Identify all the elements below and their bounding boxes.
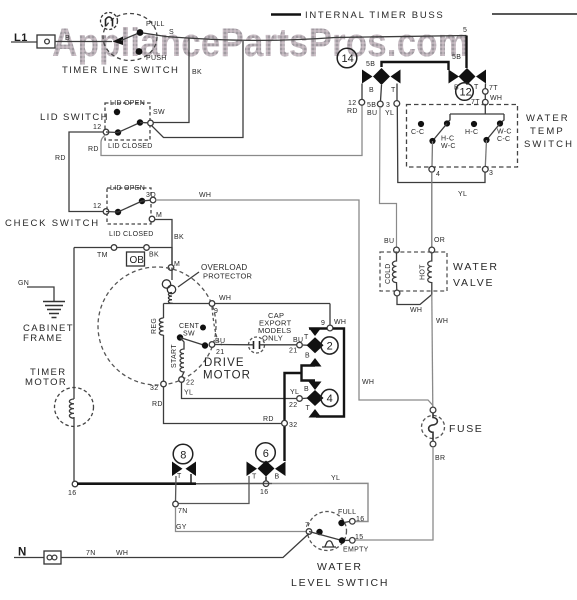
wire BU 21 to capacitor to 2 <box>215 344 297 346</box>
svg-text:B: B <box>65 35 70 42</box>
timer contact diamond 12 <box>459 68 476 85</box>
wire RD lid12 to timer12 <box>101 105 362 156</box>
svg-text:6: 6 <box>263 448 269 460</box>
blade to SW <box>140 122 148 124</box>
fuse dashed circle <box>422 416 445 439</box>
overload leader line <box>178 272 199 287</box>
lid switch blade end dot <box>137 119 143 125</box>
N terminal box <box>44 551 61 564</box>
svg-text:RD: RD <box>263 416 274 423</box>
svg-text:5B: 5B <box>452 54 461 61</box>
svg-text:12: 12 <box>348 100 356 107</box>
wire N to water level 7 <box>14 534 309 558</box>
L1 terminal box <box>37 35 55 48</box>
svg-text:M: M <box>174 261 180 268</box>
buss triangle 4T (up) <box>309 409 322 418</box>
wire WH valve to fuse <box>432 295 433 408</box>
svg-text:3: 3 <box>489 170 493 177</box>
circled 6 <box>256 443 276 463</box>
overload coil <box>168 293 172 304</box>
svg-text:W-C: W-C <box>497 129 512 136</box>
temp terminal 3 <box>482 166 488 172</box>
svg-text:8: 8 <box>180 449 186 461</box>
water level blade to empty <box>309 532 342 541</box>
svg-text:N: N <box>18 547 26 559</box>
full contact stub <box>344 522 350 523</box>
svg-text:WH: WH <box>362 379 374 386</box>
wire motor top to timer 9 <box>329 304 331 326</box>
wire 7N link 8T to 6T <box>176 476 250 504</box>
buss triangle 2B (up) <box>309 358 322 367</box>
full contact dot <box>338 520 344 526</box>
buss triangle 12 left (right-pointing) <box>449 70 460 84</box>
svg-text:LEVEL SWTICH: LEVEL SWTICH <box>291 577 389 589</box>
svg-text:W-C: W-C <box>441 143 456 150</box>
motor terminal 21 <box>209 342 215 348</box>
svg-text:WH: WH <box>490 95 502 102</box>
svg-text:LID OPEN: LID OPEN <box>110 100 145 107</box>
svg-text:WH: WH <box>436 318 448 325</box>
svg-text:4: 4 <box>436 171 440 178</box>
svg-text:CENT: CENT <box>179 323 200 330</box>
terminal TM circle <box>111 245 117 251</box>
svg-text:C-C: C-C <box>497 136 510 143</box>
stub 8 right to bus <box>190 474 192 483</box>
wire 22 circle to diamond4 <box>303 397 310 400</box>
svg-text:4: 4 <box>327 393 333 405</box>
svg-text:YL: YL <box>290 389 299 396</box>
capacitor C1 dashed circle <box>249 337 265 353</box>
lid switch contact open dot <box>114 109 120 115</box>
svg-text:BK: BK <box>174 234 184 241</box>
svg-text:BU: BU <box>367 110 377 117</box>
svg-text:MOTOR: MOTOR <box>25 377 67 388</box>
START winding <box>180 338 184 377</box>
timer motor dashed circle <box>55 388 94 427</box>
svg-text:B: B <box>305 353 310 360</box>
timer contact diamond 14 <box>373 68 390 85</box>
svg-text:15: 15 <box>355 534 363 541</box>
wire 7T stub <box>484 84 486 100</box>
svg-text:16: 16 <box>356 516 364 523</box>
connector OB box <box>127 252 145 266</box>
knob glyph <box>106 17 113 27</box>
cent switch pivot dot <box>177 334 183 340</box>
timer line switch knob circle <box>101 13 118 30</box>
terminal 21 circle right <box>297 342 303 348</box>
svg-text:WATER: WATER <box>526 113 570 124</box>
svg-text:WH: WH <box>410 307 422 314</box>
fuse bottom terminal <box>430 441 436 447</box>
cent switch blade <box>180 338 205 346</box>
svg-text:EMPTY: EMPTY <box>343 547 369 554</box>
svg-text:FUSE: FUSE <box>449 423 483 435</box>
wire L1 to switch <box>11 41 112 44</box>
wire M to motor M <box>155 220 173 265</box>
terminal 7N circle <box>173 501 179 507</box>
check switch blade <box>106 200 151 212</box>
temp pivot to terminal 4 <box>431 141 434 167</box>
svg-text:COLD: COLD <box>385 263 392 284</box>
fuse element <box>429 413 438 441</box>
lid switch terminal 12 <box>103 129 109 135</box>
svg-text:RD: RD <box>152 401 163 408</box>
svg-text:22: 22 <box>186 380 194 387</box>
timer terminal 3 circle <box>394 101 400 107</box>
svg-text:RD: RD <box>55 155 66 162</box>
wire timer motor to bus <box>73 417 75 481</box>
temp pivot to terminal 3 <box>485 140 486 167</box>
svg-text:SW: SW <box>183 331 195 338</box>
bottom bus 16 right <box>196 483 272 485</box>
svg-text:BU: BU <box>384 238 394 245</box>
motor terminal 9 <box>209 301 215 307</box>
svg-text:BK: BK <box>149 252 159 259</box>
motor left edge lower / RD wire to 32 <box>164 335 282 424</box>
svg-text:START: START <box>171 344 178 368</box>
wire BR fuse to empty 15 <box>355 447 433 540</box>
svg-text:RD: RD <box>88 146 99 153</box>
svg-text:WH: WH <box>199 192 211 199</box>
svg-text:RD: RD <box>347 108 358 115</box>
empty contact dot <box>339 537 345 543</box>
buss B net Z-link <box>285 366 316 462</box>
svg-text:YL: YL <box>184 390 193 397</box>
node GN wire <box>27 287 54 301</box>
water level terminal 16 <box>350 519 356 525</box>
svg-text:BK: BK <box>192 69 202 76</box>
stub diamond6 to bus <box>265 477 267 482</box>
svg-text:7N: 7N <box>86 550 96 557</box>
svg-text:S: S <box>169 29 174 36</box>
water valve dashed box <box>380 252 447 291</box>
buss triangle 6 left (right-pointing) <box>247 462 258 477</box>
svg-text:WH: WH <box>334 319 346 326</box>
wire BU timer to water valve <box>380 107 397 247</box>
temp contact dot H-C <box>471 121 477 127</box>
fuse top terminal <box>430 407 436 413</box>
wire S drop at 243 to SW net <box>151 41 243 138</box>
wire GY to water level 7 <box>176 507 307 532</box>
svg-text:OB: OB <box>130 255 145 266</box>
bottom bus 16 thick <box>77 482 196 485</box>
svg-text:T: T <box>252 474 257 481</box>
bus terminal 16 circle <box>72 481 78 487</box>
timer terminal 32 circle <box>282 420 288 426</box>
timer contact diamond 4 <box>307 390 324 406</box>
wire BK drop to lid switch SW <box>153 39 189 123</box>
wire TM down to timer motor <box>73 248 75 400</box>
buss triangle 14 right (left-pointing) <box>391 70 401 84</box>
hot solenoid coil <box>428 253 432 295</box>
buss triangle 6 right (left-pointing) from 32 buss <box>275 462 286 477</box>
temp right blade <box>487 124 501 141</box>
cold solenoid coil <box>392 253 396 290</box>
svg-text:T: T <box>306 405 311 412</box>
circled 8 <box>173 444 193 464</box>
wire YL 22 to timer 4B <box>182 383 297 399</box>
terminal BK circle <box>144 245 150 251</box>
svg-text:M: M <box>156 212 162 219</box>
buss triangle 12 right (left-pointing) <box>476 70 486 84</box>
capacitor plates <box>254 341 260 349</box>
wire S output to timer buss <box>143 33 467 40</box>
motor top line <box>164 268 331 304</box>
temp contact dot C-C <box>418 121 424 127</box>
buss triangle 2T (down) <box>309 328 322 337</box>
timer line switch cam circle (dashed) <box>103 14 157 61</box>
temp switch feed terminal circle <box>483 99 489 105</box>
timer terminal 7T circle <box>483 89 489 95</box>
svg-text:CHECK SWITCH: CHECK SWITCH <box>5 218 100 229</box>
wire 3YL stub <box>396 84 398 101</box>
svg-text:3: 3 <box>386 102 390 109</box>
svg-text:21: 21 <box>216 349 224 356</box>
water temp switch dashed box <box>407 105 518 168</box>
circled 2 <box>321 337 338 354</box>
check switch dashed box <box>107 188 151 224</box>
svg-text:PUSH: PUSH <box>146 55 167 62</box>
svg-text:H-C: H-C <box>465 129 478 136</box>
buss triangle 8 left (right-pointing) <box>172 462 183 477</box>
overload protector circles <box>162 280 170 288</box>
svg-text:FULL: FULL <box>338 509 356 516</box>
svg-text:5: 5 <box>463 27 467 34</box>
water valve terminal BU <box>394 247 400 253</box>
svg-text:YL: YL <box>458 191 467 198</box>
temp switch feed lines <box>448 105 504 122</box>
svg-text:WH: WH <box>116 550 128 557</box>
svg-text:BR: BR <box>435 455 445 462</box>
check switch contact dot <box>139 198 145 204</box>
motor terminal M <box>168 265 174 271</box>
svg-text:PULL: PULL <box>146 21 165 28</box>
lid switch dashed box <box>105 103 150 140</box>
svg-text:WATER: WATER <box>453 261 499 273</box>
check switch blade dot <box>115 209 121 215</box>
svg-text:MOTOR: MOTOR <box>203 370 251 382</box>
buss triangle 8 right (left-pointing) <box>186 462 197 477</box>
svg-text:LID SWITCH: LID SWITCH <box>40 112 109 123</box>
temp terminal 4 <box>429 166 435 172</box>
svg-text:5B: 5B <box>366 61 375 68</box>
water level terminal 7 <box>306 529 312 535</box>
cent blade end dot <box>202 342 208 348</box>
svg-text:H-C: H-C <box>441 136 454 143</box>
svg-text:14: 14 <box>342 53 354 65</box>
svg-text:T: T <box>304 334 309 341</box>
lid switch terminal SW <box>148 120 154 126</box>
svg-text:9: 9 <box>214 308 218 315</box>
timer buss T net: 9 to 2T and 4T <box>309 329 344 417</box>
water valve WH common link <box>397 295 432 305</box>
water level switch dashed circle <box>308 512 347 551</box>
buss triangle 14 left (right-pointing) <box>362 70 373 84</box>
circled 4 <box>321 389 338 406</box>
temp feed dot right <box>497 120 503 126</box>
wire TM-OB-M lower link <box>74 248 172 265</box>
empty stub <box>345 539 350 541</box>
wire 5B BU stub <box>381 85 382 101</box>
svg-text:12: 12 <box>93 124 101 131</box>
svg-text:32: 32 <box>289 422 297 429</box>
svg-text:WATER: WATER <box>317 561 363 573</box>
svg-text:LID OPEN: LID OPEN <box>110 185 145 192</box>
svg-text:PROTECTOR: PROTECTOR <box>203 272 253 281</box>
svg-text:B: B <box>369 87 374 94</box>
svg-text:32: 32 <box>150 385 158 392</box>
lid switch contact closed dot <box>115 129 121 135</box>
svg-text:B: B <box>304 386 309 393</box>
svg-text:T: T <box>177 473 182 480</box>
timer terminal 9 circle <box>327 325 333 331</box>
contact PULL dot <box>137 29 144 36</box>
svg-text:2: 2 <box>327 341 333 353</box>
svg-text:TEMP: TEMP <box>530 126 565 137</box>
timer motor coil <box>69 399 74 418</box>
temp left pivot dot <box>429 138 435 144</box>
svg-text:GN: GN <box>18 280 29 287</box>
wire 21 circle to diamond2 <box>303 344 310 346</box>
terminal 22 circle right <box>297 396 303 402</box>
water level terminal 15 <box>350 538 356 544</box>
svg-text:VALVE: VALVE <box>453 277 494 289</box>
svg-text:12: 12 <box>460 87 472 99</box>
svg-text:OR: OR <box>434 237 445 244</box>
switch blade to PULL contact <box>121 33 140 41</box>
svg-text:T: T <box>391 87 396 94</box>
svg-text:9: 9 <box>321 320 325 327</box>
svg-text:B: B <box>275 474 280 481</box>
water valve terminal OR <box>429 247 435 253</box>
temp left blade <box>433 124 448 142</box>
lid switch blade <box>106 123 140 133</box>
cent switch stray dot <box>200 325 206 331</box>
wire lid12 to check12 <box>69 132 104 212</box>
svg-text:21: 21 <box>289 348 297 355</box>
svg-text:7N: 7N <box>178 508 188 515</box>
svg-text:16: 16 <box>260 489 268 496</box>
svg-text:GY: GY <box>176 524 187 531</box>
top-right corner line fragment <box>492 13 577 15</box>
N box circles <box>47 555 52 560</box>
check switch terminal 3O <box>150 197 156 203</box>
svg-text:22: 22 <box>289 402 297 409</box>
svg-text:YL: YL <box>385 110 394 117</box>
REG winding <box>159 318 163 335</box>
svg-text:5B: 5B <box>367 102 376 109</box>
circled 12 <box>456 83 474 101</box>
motor terminal 22 <box>179 377 185 383</box>
contact PUSH dot <box>136 48 143 55</box>
svg-text:C-C: C-C <box>411 129 424 136</box>
svg-text:YL: YL <box>331 475 340 482</box>
timer terminal 12 circle <box>359 99 365 105</box>
svg-text:SWITCH: SWITCH <box>524 139 574 150</box>
wire YL timer3 to temp switch 3 <box>397 107 485 183</box>
motor left edge upper <box>163 304 165 319</box>
buss triangle 4B (down) <box>309 382 322 391</box>
svg-text:FRAME: FRAME <box>23 333 63 344</box>
svg-text:7: 7 <box>305 522 309 529</box>
svg-text:TIMER LINE SWITCH: TIMER LINE SWITCH <box>62 65 179 76</box>
circled 14 <box>337 48 357 68</box>
svg-text:INTERNAL TIMER BUSS: INTERNAL TIMER BUSS <box>305 10 444 21</box>
timer buss 14-12 top link <box>382 36 467 71</box>
drive motor dashed circle <box>98 267 216 385</box>
timer contact diamond 6 <box>258 461 275 477</box>
timer terminal 5B circle <box>377 101 383 107</box>
bus terminal 16 circle <box>263 481 269 487</box>
svg-text:REG: REG <box>151 318 158 334</box>
cold coil bottom circle <box>394 290 400 296</box>
svg-text:LID CLOSED: LID CLOSED <box>109 231 154 238</box>
wire 12RD stub <box>361 84 363 100</box>
temp right pivot dot <box>483 137 489 143</box>
water level pivot dot <box>316 529 322 535</box>
check switch terminal M <box>149 216 155 222</box>
switch blade arrowhead <box>113 37 124 46</box>
svg-text:DRIVE: DRIVE <box>204 357 245 369</box>
svg-text:12: 12 <box>93 203 101 210</box>
svg-text:SW: SW <box>153 109 165 116</box>
timer contact diamond 2 <box>307 337 324 353</box>
wire OR temp4 to water valve <box>431 172 433 247</box>
svg-text:HOT: HOT <box>420 264 427 280</box>
svg-text:WH: WH <box>219 295 231 302</box>
svg-text:7T: 7T <box>489 85 498 92</box>
motor terminal 32 <box>161 381 167 387</box>
cap export dashed hookup <box>212 307 222 345</box>
svg-text:16: 16 <box>68 490 76 497</box>
ground cabinet frame symbol <box>43 302 65 318</box>
check switch terminal 12 <box>103 209 109 215</box>
legend: internal timer buss line sample <box>271 13 301 16</box>
svg-text:TM: TM <box>97 252 108 259</box>
wire WH check3O to fuse <box>156 200 434 406</box>
svg-text:ONLY: ONLY <box>262 334 283 343</box>
svg-text:T: T <box>474 84 479 91</box>
svg-text:LID CLOSED: LID CLOSED <box>108 143 153 150</box>
pressure dome symbol <box>322 541 336 547</box>
temp feed dot left <box>444 120 450 126</box>
